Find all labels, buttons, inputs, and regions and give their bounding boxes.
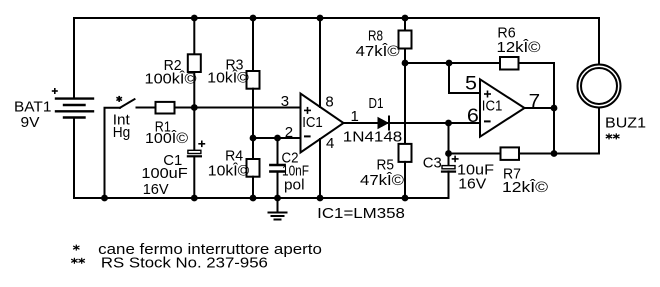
svg-text:16V: 16V <box>143 181 169 198</box>
svg-text:RS Stock No. 237-956: RS Stock No. 237-956 <box>101 255 268 272</box>
node pin5 / R6 <box>446 60 453 67</box>
switch S1 lever (Int Hg) <box>120 99 135 108</box>
op-amp2 plus input mark <box>484 93 491 95</box>
resistor R7 <box>501 147 520 160</box>
wire pin8 supply <box>319 18 321 107</box>
node 0V rail / switch <box>101 195 108 202</box>
wire switch branch vertical <box>104 108 106 198</box>
wire R3 branch top <box>252 18 254 71</box>
svg-text:12kÎ©: 12kÎ© <box>497 39 541 56</box>
op-amp U1b IC1 (pins 5,6,7) <box>480 79 525 136</box>
svg-text:8: 8 <box>325 94 333 111</box>
svg-text:1: 1 <box>351 108 359 125</box>
wire switch to R1 <box>137 107 156 109</box>
wire C1 to 0V rail <box>193 157 195 199</box>
capacitor C2 top plate <box>270 164 284 166</box>
wire left rail lower (battery - to 0V rail) <box>73 118 75 199</box>
node 0V rail / pin4 <box>317 195 324 202</box>
svg-text:16V: 16V <box>458 175 486 192</box>
node top rail / R8 <box>402 15 409 22</box>
resistor R3 <box>247 71 260 89</box>
node 0V rail / C1 <box>191 195 198 202</box>
svg-text:100Î©: 100Î© <box>145 130 188 147</box>
switch open-contact asterisk marker <box>116 96 122 102</box>
resistor R8 <box>399 31 412 49</box>
node R8 / R5 / R6 <box>402 60 409 67</box>
wire R8 branch top <box>404 18 406 31</box>
svg-text:10kÎ©: 10kÎ© <box>207 70 249 87</box>
svg-text:6: 6 <box>467 106 479 127</box>
op-amp2 minus input mark <box>484 120 491 122</box>
svg-text:R5: R5 <box>377 156 395 173</box>
svg-text:7: 7 <box>529 91 541 111</box>
wire R6 right to output node <box>519 63 555 108</box>
ground symbol <box>269 198 287 220</box>
node top rail / R3 <box>250 15 257 22</box>
wire bottom 0V rail <box>74 197 449 199</box>
svg-text:BUZ1: BUZ1 <box>605 114 646 131</box>
battery plus sign <box>52 90 58 92</box>
wire R8/R5 node to R6 left (pin5 reference net) <box>405 62 500 64</box>
wire pin1 output to D1 and node at C3 branch <box>344 122 449 124</box>
node pin3 / R2 / C1 <box>191 104 198 111</box>
wire output node down to R7 net <box>553 108 555 154</box>
resistor R6 <box>500 57 519 70</box>
node 0V rail / R5 <box>402 195 409 202</box>
op-amp1 minus input mark <box>304 135 311 137</box>
wire R4 to 0V rail <box>252 177 254 198</box>
note footnote double star <box>71 258 85 264</box>
wire R3 bottom to pin2 node (crosses pin3 wire, no join) <box>252 89 254 138</box>
node pin2 / R3 / R4 <box>250 135 257 142</box>
wire pin4 supply <box>319 139 321 198</box>
wire R7 right to buzzer bottom <box>519 108 599 154</box>
node R7 / buzzer <box>551 150 558 157</box>
svg-text:5: 5 <box>465 74 477 95</box>
node 0V rail / ground C2 <box>274 195 281 202</box>
svg-text:100kÎ©: 100kÎ© <box>145 70 197 87</box>
node pin7 / R6 <box>551 105 558 112</box>
resistor R1 <box>156 102 175 114</box>
capacitor C1 bottom plate <box>188 155 201 157</box>
buzzer BUZ1 inner circle <box>581 68 617 104</box>
buzzer BUZ1 outer circle <box>578 65 621 108</box>
capacitor C2 bottom plate <box>270 170 284 172</box>
svg-text:1N4148: 1N4148 <box>343 129 402 146</box>
svg-text:47kÎ©: 47kÎ© <box>356 43 400 60</box>
wire pin7 output <box>525 107 555 109</box>
svg-text:C3: C3 <box>423 155 442 172</box>
wire top supply rail <box>74 17 599 19</box>
C1 plus sign <box>198 143 205 145</box>
capacitor C3 top plate <box>442 166 455 169</box>
svg-text:9V: 9V <box>21 114 40 131</box>
wire pin3 net (R1 to IC1 pin3) <box>175 107 301 109</box>
svg-text:10kÎ©: 10kÎ© <box>208 162 250 179</box>
capacitor C1 top plate <box>188 150 201 153</box>
capacitor C3 bottom plate <box>442 171 455 173</box>
svg-text:100uF: 100uF <box>141 165 187 182</box>
wire R7 left net <box>449 153 501 155</box>
node C3 / R7 <box>445 150 452 157</box>
wire R4 branch <box>252 138 254 159</box>
op-amp1 plus input mark <box>304 109 311 111</box>
diode D1 triangle <box>378 117 390 129</box>
wire left rail upper (to battery +) <box>73 18 75 99</box>
svg-text:D1: D1 <box>369 95 384 112</box>
svg-text:IC1=LM358: IC1=LM358 <box>317 205 405 222</box>
wire R2 bottom to C1 <box>193 72 195 150</box>
node top rail / pin8 <box>317 15 324 22</box>
svg-text:4: 4 <box>326 135 334 152</box>
wire C2 branch <box>277 138 279 165</box>
svg-text:pol: pol <box>284 177 305 194</box>
svg-text:3: 3 <box>281 93 289 110</box>
svg-text:Hg: Hg <box>113 124 131 141</box>
battery BAT1 <box>56 99 93 118</box>
node 0V rail / R4 <box>250 195 257 202</box>
C3 plus sign <box>452 158 459 160</box>
svg-text:IC1: IC1 <box>482 98 503 115</box>
wire C3 branch (pin6 node down) <box>448 123 450 165</box>
wire R8 bottom through crossing to R5 (crosses D1 wire, no join) <box>404 49 406 144</box>
wire pin5 branch <box>449 63 480 93</box>
wire C3 to 0V rail <box>448 171 450 198</box>
wire R2 branch top <box>193 18 195 54</box>
resistor R4 <box>247 159 260 177</box>
resistor R5 <box>399 144 412 162</box>
diode D1 cathode bar <box>388 117 390 130</box>
op-amp U1a IC1 (pins 3,2,1,8,4) <box>301 94 344 153</box>
node D1 / pin6 / C3 <box>445 120 452 127</box>
svg-text:IC1: IC1 <box>302 114 323 131</box>
svg-text:47kÎ©: 47kÎ© <box>360 172 404 189</box>
wire buzzer top supply <box>598 18 600 65</box>
svg-text:2: 2 <box>285 124 293 141</box>
note footnote star <box>73 245 79 251</box>
switch S1 fixed stub <box>105 107 121 109</box>
node pin2 / C2 <box>274 135 281 142</box>
wire pin6 branch <box>449 122 481 124</box>
node top rail / R2 <box>191 15 198 22</box>
wire C2 to 0V rail <box>277 172 279 199</box>
buzzer footnote double star <box>606 133 620 139</box>
resistor R2 <box>188 54 201 72</box>
wire pin2 net horizontal <box>253 137 301 139</box>
svg-text:12kÎ©: 12kÎ© <box>502 179 548 196</box>
wire R5 to 0V rail <box>404 162 406 198</box>
